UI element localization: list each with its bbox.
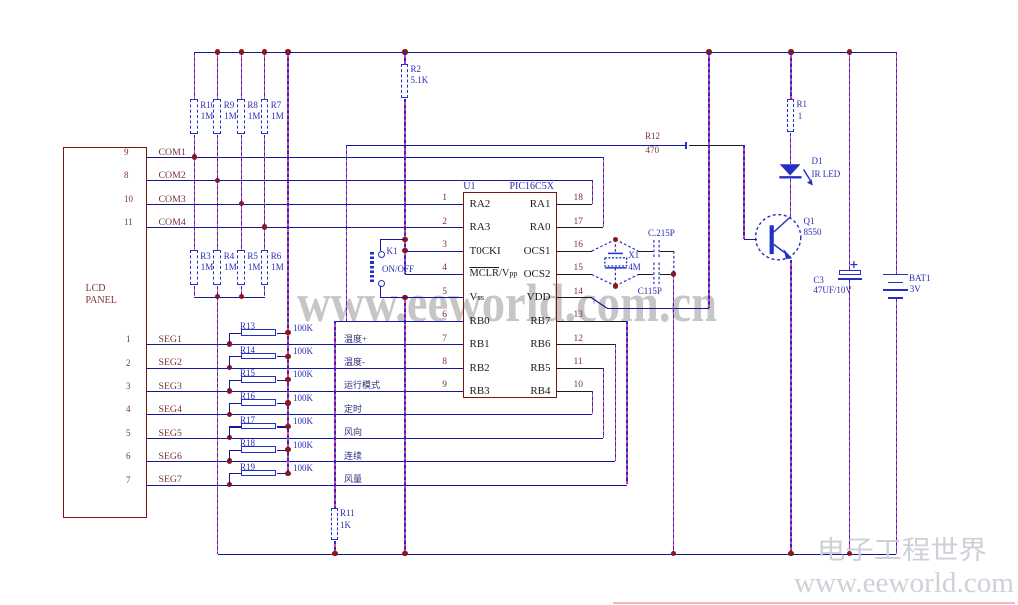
- label pin name VDD: [527, 292, 551, 304]
- wire R8 top lead: [241, 52, 242, 99]
- wire pin13 stub: [557, 321, 628, 322]
- crystal X1 stubs: [614, 240, 616, 254]
- wire R16 left riser: [229, 403, 230, 414]
- wire wire COM1 to R3: [194, 157, 195, 250]
- node rail junction: [215, 49, 220, 54]
- label BAT1 value: [910, 285, 921, 294]
- resistor R8 body: [237, 99, 245, 134]
- label U1: [463, 182, 475, 193]
- wire R17 left riser: [229, 426, 230, 437]
- label pin name MCLR/Vpp: [470, 269, 518, 280]
- wire pin10 stub: [557, 391, 593, 392]
- resistor R13 body: [241, 329, 276, 336]
- wire R14 left riser: [229, 356, 230, 367]
- label X1 value: [628, 263, 641, 272]
- label R1: [797, 100, 808, 109]
- wire R17 right lead: [277, 426, 288, 427]
- label pin 4: [442, 264, 447, 274]
- label R17: [240, 416, 255, 425]
- label pin name RB4: [530, 386, 550, 398]
- node rail junction: [402, 49, 407, 54]
- label pin name T0CKI: [470, 246, 501, 258]
- resistor R6 body: [261, 250, 269, 285]
- wire wire rail to C3: [849, 52, 850, 270]
- wire R10 top lead: [194, 52, 195, 99]
- node junction ground rail: [332, 551, 337, 556]
- label pin 7: [442, 335, 447, 345]
- resistor R7 body: [261, 99, 269, 134]
- label net COM3: [159, 195, 186, 205]
- node junction COM3: [239, 201, 244, 206]
- capacitor C2 plates: [653, 240, 655, 259]
- label pin 12: [574, 335, 584, 345]
- node node K1 top: [402, 237, 407, 242]
- wire R15 right lead: [277, 380, 288, 381]
- label pin name RA1: [530, 199, 551, 211]
- node rail junction: [706, 49, 711, 54]
- wire wire COM2 to R4: [217, 180, 218, 250]
- label Q1: [804, 217, 815, 226]
- wire R12 right lead: [689, 145, 744, 146]
- node junction: [239, 294, 244, 299]
- wire wire COM3 to R5: [241, 204, 242, 250]
- wire R14 left lead: [229, 356, 241, 357]
- label pin 10: [574, 381, 584, 391]
- svg-text:www.eeworld.com: www.eeworld.com: [794, 567, 1014, 599]
- wire OSC2 diagonals: [592, 275, 616, 286]
- node rail junction: [847, 49, 852, 54]
- node junction COM2: [215, 178, 220, 183]
- label R2: [411, 65, 422, 74]
- wire wire Vss: [380, 297, 463, 298]
- label net SEG6: [159, 452, 182, 462]
- resistor R5 body: [237, 250, 245, 285]
- wire cap right vertical upper: [673, 251, 675, 274]
- wire wire R12 down: [346, 145, 347, 320]
- wire pin12 stub: [557, 344, 616, 345]
- label R2 value: [411, 76, 429, 85]
- node junction bus: [285, 424, 290, 429]
- wire R2 top lead: [404, 52, 405, 64]
- label R13: [240, 322, 255, 331]
- label R6 value: [271, 263, 284, 272]
- wire R1 top lead: [790, 52, 791, 99]
- label function 风量: [344, 475, 362, 484]
- node junction SEG3: [227, 388, 232, 393]
- wire 1M common wire: [194, 297, 265, 298]
- label R4: [224, 252, 235, 261]
- wire wire rail to BAT1: [896, 52, 897, 275]
- op-amp U1 PIC16C5X box: [463, 192, 557, 397]
- label R8: [247, 101, 258, 110]
- label pin 5: [442, 288, 447, 298]
- wire K1 bottom wire down: [380, 286, 381, 297]
- resistor R17 body: [241, 423, 276, 430]
- label pin 15: [574, 264, 584, 274]
- label pin 9 LCD: [124, 148, 129, 157]
- wire wire SEG6: [147, 461, 615, 462]
- label C3: [813, 276, 824, 285]
- label R3 value: [201, 263, 214, 272]
- wire wire R2 to T0CKI node: [404, 99, 405, 274]
- switch K1: [378, 251, 385, 258]
- wire R4 bottom lead: [217, 286, 218, 297]
- wire OSC1 diagonals: [592, 240, 674, 286]
- wire pin14 VDD stub: [557, 297, 592, 298]
- wire R12 left lead: [347, 145, 685, 146]
- label net COM2: [159, 171, 186, 181]
- wire R16 left lead: [229, 403, 241, 404]
- label R12 value: [646, 146, 660, 155]
- wire wire SEG4: [147, 414, 592, 415]
- wire R15 left riser: [229, 380, 230, 391]
- node junction bus: [285, 471, 290, 476]
- label pin name RB7: [530, 316, 550, 328]
- label R1 value: [798, 112, 803, 121]
- label function 运行模式: [344, 381, 380, 390]
- node rail junction: [262, 49, 267, 54]
- wire wire T0CKI: [405, 251, 463, 252]
- capacitor C3 polarity: [850, 261, 857, 268]
- label pin 7 LCD: [126, 476, 131, 485]
- wire pin16 stub: [557, 251, 592, 252]
- label R18: [240, 439, 255, 448]
- label pin 5 LCD: [126, 429, 131, 438]
- wire wire pin10 to SEG4: [592, 391, 593, 414]
- label R15: [240, 369, 255, 378]
- label pin name RA0: [530, 222, 551, 234]
- wire wire C2 to bus: [660, 251, 674, 252]
- label function 温度+: [344, 335, 367, 344]
- label Q1 value: [804, 228, 822, 237]
- wire wire pin11 to SEG5: [603, 368, 604, 438]
- label K1: [387, 247, 398, 256]
- node junction bus: [285, 400, 290, 405]
- resistor R4 body: [213, 250, 221, 285]
- label R16: [240, 392, 255, 401]
- label pin 11 LCD: [124, 218, 133, 227]
- wire wire x217 down to ground rail: [217, 297, 218, 554]
- label X1: [628, 251, 639, 260]
- label pin 17: [574, 218, 584, 228]
- label net SEG7: [159, 475, 182, 485]
- label D1: [812, 157, 823, 166]
- label pin 8: [442, 358, 447, 368]
- crystal X1 body: [605, 253, 627, 268]
- label pin 11: [574, 358, 583, 368]
- wire V+ top rail: [194, 52, 896, 53]
- label R11: [340, 509, 355, 518]
- wire wire RB0: [335, 321, 463, 322]
- wire K1 top wire up: [380, 239, 381, 251]
- label net SEG5: [159, 429, 182, 439]
- label pin name RB5: [530, 363, 550, 375]
- label function 风向: [344, 428, 362, 437]
- wire wire C1 to bus: [660, 274, 674, 275]
- wire R19 right lead: [277, 473, 288, 474]
- resistor R15 body: [241, 376, 276, 383]
- wire wire VDD to rail: [708, 52, 709, 308]
- wire R13 left lead: [229, 333, 241, 334]
- wire R18 left lead: [229, 450, 241, 451]
- label pin 13: [574, 311, 584, 321]
- label R10: [200, 101, 215, 110]
- wire R7 top lead: [264, 52, 265, 99]
- label function 温度-: [344, 358, 365, 367]
- svg-text:电子工程世界: 电子工程世界: [817, 536, 987, 565]
- label R9 value: [224, 112, 237, 121]
- resistor R11 body: [331, 508, 339, 541]
- resistor R12 tick: [685, 142, 687, 149]
- LCD panel box: [63, 147, 147, 518]
- wire wire R10 to COM1: [194, 135, 195, 157]
- node junction ground rail: [847, 551, 852, 556]
- label net SEG2: [159, 358, 182, 368]
- wire pin17 stub: [557, 227, 604, 228]
- label pin 16: [574, 241, 584, 251]
- wire K1 top wire: [380, 239, 405, 240]
- label R5: [247, 252, 258, 261]
- label pin name RB3: [470, 386, 490, 398]
- resistor R14 body: [241, 353, 276, 360]
- label net SEG4: [159, 405, 182, 415]
- label R5 value: [248, 263, 261, 272]
- resistor R19 body: [241, 470, 276, 477]
- wire R5 bottom lead: [241, 286, 242, 297]
- label R7: [271, 101, 282, 110]
- wire wire pin18 to COM2: [592, 180, 593, 203]
- label net COM4: [159, 218, 186, 228]
- label pin 18: [574, 194, 584, 204]
- label pin name RB0: [470, 316, 490, 328]
- wire wire COM4: [147, 227, 463, 228]
- wire wire pin12 to SEG6: [615, 344, 616, 461]
- wire wire D1 to Q1: [790, 179, 791, 216]
- wire wire COM4 to R6: [264, 227, 265, 250]
- wire R18 left riser: [229, 450, 230, 461]
- label pin 1 LCD: [126, 335, 131, 344]
- label pin name RB6: [530, 339, 550, 351]
- resistor R16 body: [241, 399, 276, 406]
- label pin name Vss: [470, 292, 485, 304]
- node junction bus: [285, 447, 290, 452]
- wire R13 right lead: [277, 333, 288, 334]
- label function 定时: [344, 405, 362, 414]
- label LCD: [86, 284, 106, 295]
- node rail junction: [285, 49, 290, 54]
- label R19 value: [293, 464, 313, 473]
- wire wire R8 to COM3: [241, 135, 242, 204]
- wire wire X to C2: [638, 251, 653, 252]
- wire pin11 stub: [557, 368, 604, 369]
- label C3 value: [813, 286, 852, 295]
- node junction SEG4: [227, 412, 232, 417]
- wire bias bus: [287, 52, 288, 474]
- label C1: [638, 287, 662, 296]
- label R14: [240, 346, 255, 355]
- node junction ground rail: [402, 551, 407, 556]
- wire R16 right lead: [277, 403, 288, 404]
- label pin 1: [442, 194, 447, 204]
- wire ground bottom rail: [218, 554, 897, 555]
- label R18 value: [293, 441, 313, 450]
- wire wire R1 to D1: [790, 133, 791, 164]
- wire wire X to C1: [638, 274, 653, 275]
- bottom pink line: [613, 602, 1015, 604]
- node junction SEG6: [227, 458, 232, 463]
- resistor R1 body: [787, 99, 795, 132]
- resistor R10 body: [190, 99, 198, 134]
- label C2: [648, 229, 675, 238]
- label R8 value: [248, 112, 261, 121]
- node rail junction: [788, 49, 793, 54]
- node node T0CKI: [402, 248, 407, 253]
- node junction bus: [285, 377, 290, 382]
- wire R13 left riser: [229, 333, 230, 344]
- label PANEL: [86, 296, 117, 307]
- node node XTAL bottom: [613, 283, 618, 288]
- wire wire SEG1: [147, 344, 463, 345]
- label pin 14: [574, 288, 584, 298]
- label pin name OCS2: [524, 269, 551, 281]
- label pin name RB2: [470, 363, 490, 375]
- node node cap bus: [671, 271, 676, 276]
- wire wire pin13 to SEG7: [626, 321, 627, 485]
- node junction SEG1: [227, 341, 232, 346]
- capacitor C1 plates: [653, 263, 655, 285]
- label R10 value: [201, 112, 214, 121]
- wire R11 bottom lead: [334, 541, 335, 553]
- label R3: [200, 252, 211, 261]
- wire wire Vss node down to ground: [404, 297, 405, 553]
- label ON/OFF: [382, 265, 414, 274]
- wire wire SEG7: [147, 485, 627, 486]
- wire R6 bottom lead: [264, 286, 265, 297]
- wire R18 right lead: [277, 450, 288, 451]
- label net SEG1: [159, 335, 182, 345]
- label net COM1: [159, 148, 186, 158]
- label pin 3 LCD: [126, 382, 131, 391]
- wire wire cap bus to ground: [673, 274, 674, 554]
- label pin 3: [442, 241, 447, 251]
- label R9: [224, 101, 235, 110]
- wire C3 bottom lead: [849, 280, 850, 554]
- node junction bus: [285, 354, 290, 359]
- label pin 8 LCD: [124, 171, 129, 180]
- wire wire COM1: [147, 157, 603, 158]
- wire wire MCLR: [405, 274, 463, 275]
- label R6: [271, 252, 282, 261]
- wire R14 right lead: [277, 356, 288, 357]
- node junction COM4: [262, 224, 267, 229]
- wire wire R9 to COM2: [217, 135, 218, 181]
- wire R19 left lead: [229, 473, 241, 474]
- transistor Q1: [756, 215, 801, 260]
- wire R17 left lead: [229, 426, 241, 427]
- label R17 value: [293, 417, 313, 426]
- label pin 2 LCD: [126, 359, 131, 368]
- label pin name OCS1: [524, 246, 551, 258]
- wire pin15 stub: [557, 274, 592, 275]
- wire wire RB0 node down: [334, 321, 335, 508]
- label R12: [645, 132, 660, 141]
- wire wire COM3: [147, 204, 463, 205]
- node junction bus: [285, 330, 290, 335]
- label pin name RB1: [470, 339, 490, 351]
- label R13 value: [293, 324, 313, 333]
- wire wire VDD: [607, 308, 709, 309]
- label R16 value: [293, 394, 313, 403]
- resistor R3 body: [190, 250, 198, 285]
- wire wire SEG2: [147, 368, 463, 369]
- wire R9 top lead: [217, 52, 218, 99]
- label pin 6: [442, 311, 447, 321]
- LED D1: [779, 164, 813, 185]
- battery BAT1: [883, 274, 908, 276]
- label pin 10 LCD: [124, 195, 133, 204]
- wire Q1 base lead: [744, 239, 757, 240]
- node junction SEG7: [227, 482, 232, 487]
- label R14 value: [293, 347, 313, 356]
- label R11 value: [340, 521, 351, 530]
- label D1 value: [812, 170, 841, 179]
- node junction SEG5: [227, 435, 232, 440]
- node junction ground rail: [788, 551, 793, 556]
- wire BAT1 bottom lead: [896, 299, 897, 554]
- label BAT1: [909, 274, 931, 283]
- capacitor C3: [839, 270, 862, 275]
- label pin 4 LCD: [126, 405, 131, 414]
- wire pin18 stub: [557, 204, 593, 205]
- wire R3 bottom lead: [194, 286, 195, 297]
- label R4 value: [224, 263, 237, 272]
- node node XTAL top: [613, 237, 618, 242]
- node node Vss: [402, 295, 407, 300]
- node rail junction: [239, 49, 244, 54]
- wire R15 left lead: [229, 380, 241, 381]
- resistor R9 body: [213, 99, 221, 134]
- label PIC16C5X: [510, 182, 554, 193]
- node junction ground rail: [671, 551, 676, 556]
- label pin 2: [442, 218, 447, 228]
- wire R19 left riser: [229, 473, 230, 484]
- label R7 value: [271, 112, 284, 121]
- wire wire Q1 collector to ground: [790, 260, 791, 554]
- wire wire R7 to COM4: [264, 135, 265, 228]
- label pin 9: [442, 381, 447, 391]
- label R19: [240, 463, 255, 472]
- resistor R2 body: [401, 64, 409, 98]
- label pin name RA3: [470, 222, 491, 234]
- node junction: [215, 294, 220, 299]
- label function 连续: [344, 452, 362, 461]
- label pin 6 LCD: [126, 452, 131, 461]
- label R15 value: [293, 370, 313, 379]
- resistor R18 body: [241, 446, 276, 453]
- label pin name RA2: [470, 199, 491, 211]
- label net SEG3: [159, 382, 182, 392]
- wire wire SEG3: [147, 391, 463, 392]
- node junction COM1: [192, 154, 197, 159]
- wire wire pin17 to COM1: [603, 157, 604, 227]
- wire wire SEG5: [147, 438, 603, 439]
- node junction SEG2: [227, 365, 232, 370]
- wire wire R12 to Q1 base: [743, 145, 744, 239]
- wire wire COM2: [147, 180, 593, 181]
